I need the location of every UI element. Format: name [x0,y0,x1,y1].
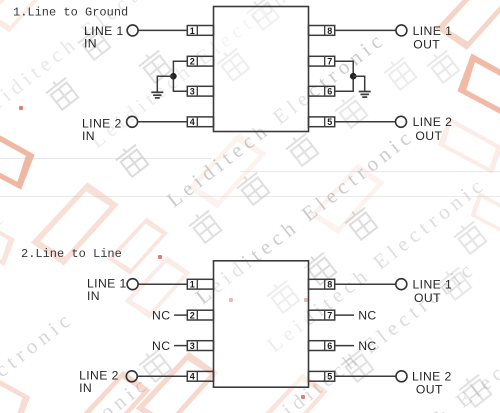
svg-text:1.Line to Ground: 1.Line to Ground [13,5,128,19]
U1 pin 1 [187,26,213,36]
wire NC stub U2 pin7 [335,314,354,316]
IC U1 (Line to Ground) [214,7,309,132]
wire U1 pin7 to pin6 (gnd net right) [335,61,354,91]
terminal LINE 1 IN (top) [127,25,138,36]
wire U1 pin8 to LINE1 OUT [335,29,396,31]
svg-text:2: 2 [190,57,195,67]
ground right (U1 pins 7-6) [359,92,371,98]
svg-text:2.Line to Line: 2.Line to Line [21,247,122,261]
wire NC stub U2 pin3 [174,345,187,347]
svg-text:OUT: OUT [416,382,443,396]
svg-text:LINE 1: LINE 1 [413,24,453,38]
terminal LINE 1 IN (bottom) [127,279,138,290]
svg-text:5: 5 [327,372,332,382]
terminal LINE 2 IN (bottom) [126,371,137,382]
U1 pin 7 [309,56,335,66]
wire LINE1 IN to U1 pin1 [138,29,187,31]
U2 pin 6 [309,341,335,351]
U2 pin 3 [187,341,213,351]
wire U2 pin5 to LINE2 OUT [335,375,396,377]
U2 pin 4 [187,371,213,381]
svg-text:IN: IN [87,289,100,303]
U1 pin 4 [187,117,213,127]
wire junction to left ground [157,76,173,92]
svg-text:1: 1 [190,26,195,36]
U2 pin 7 [309,310,335,320]
svg-text:3: 3 [190,341,195,351]
wire U1 pin2 to pin3 (gnd net left) [173,61,187,91]
svg-text:LINE 1: LINE 1 [413,278,453,292]
svg-text:IN: IN [82,129,95,143]
svg-text:NC: NC [152,339,170,353]
wire NC stub U2 pin6 [335,345,354,347]
wire U2 pin8 to LINE1 OUT [335,283,396,285]
junction dot (right gnd net) [350,73,357,80]
terminal LINE 2 IN (top) [127,116,138,127]
U1 pin 8 [309,26,335,36]
wire U1 pin5 to LINE2 OUT [335,121,396,123]
U1 pin 6 [309,86,335,96]
wire NC stub U2 pin2 [174,314,187,316]
terminal LINE 2 OUT (top) [396,116,407,127]
svg-text:IN: IN [84,36,97,50]
U1 pin 2 [187,56,213,66]
svg-text:LINE 2: LINE 2 [413,115,453,129]
svg-text:6: 6 [327,341,332,351]
svg-text:NC: NC [358,308,376,322]
wire LINE1 IN to U2 pin1 [138,283,187,285]
wire LINE2 IN to U1 pin4 [138,121,188,123]
svg-text:1: 1 [190,280,195,290]
U1 pin 5 [309,117,335,127]
U2 pin 2 [187,310,213,320]
svg-text:NC: NC [358,339,376,353]
svg-text:4: 4 [190,372,195,382]
svg-text:OUT: OUT [415,129,442,143]
svg-text:IN: IN [79,381,92,395]
U2 pin 5 [309,371,335,381]
ground left (U1 pins 2-3) [151,92,163,98]
svg-text:5: 5 [327,117,332,127]
svg-text:6: 6 [327,87,332,97]
svg-text:4: 4 [190,117,195,127]
wire junction to right ground [353,76,365,91]
U2 pin 8 [309,279,335,289]
terminal LINE 1 OUT (bottom) [396,279,407,290]
U1 pin 3 [187,86,213,96]
svg-text:8: 8 [327,26,332,36]
terminal LINE 1 OUT (top) [396,25,407,36]
svg-text:3: 3 [190,87,195,97]
svg-text:OUT: OUT [413,37,440,51]
junction dot (left gnd net) [170,73,177,80]
terminal LINE 2 OUT (bottom) [396,371,407,382]
U2 pin 1 [187,279,213,289]
IC U2 (Line to Line) [214,261,309,387]
svg-text:2: 2 [190,311,195,321]
svg-text:7: 7 [327,311,332,321]
wire LINE2 IN to U2 pin4 [137,375,187,377]
svg-text:OUT: OUT [414,291,441,305]
svg-text:8: 8 [327,280,332,290]
svg-text:7: 7 [327,57,332,67]
svg-text:NC: NC [152,308,170,322]
